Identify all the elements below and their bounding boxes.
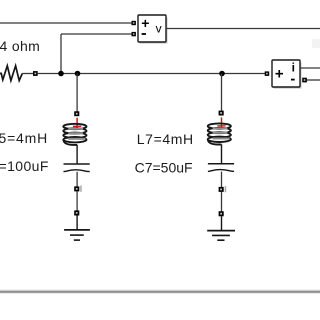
inductor L7 inner shading bbox=[213, 128, 230, 138]
svg-text:i: i bbox=[292, 61, 295, 75]
wire U1 output bbox=[166, 28, 320, 30]
wire C5 to output port bbox=[76, 172, 78, 187]
port branch 2 input bbox=[219, 111, 224, 116]
branch 2 clipped label tick bbox=[225, 186, 227, 192]
svg-text:4 ohm: 4 ohm bbox=[0, 38, 40, 54]
svg-text:=100uF: =100uF bbox=[0, 158, 49, 174]
port ground 2 bbox=[219, 211, 224, 216]
wire L7 to C7 bbox=[221, 144, 223, 164]
port branch 1 input bbox=[74, 111, 79, 116]
wire ground 2 lead bbox=[221, 216, 223, 230]
wire bus to branch 1 port bbox=[76, 74, 78, 112]
port U2 plus input bbox=[265, 71, 270, 76]
ground symbol 2 bbox=[207, 230, 235, 232]
ground symbol 1 bbox=[64, 229, 90, 231]
port branch 2 output bbox=[219, 187, 224, 192]
inductor L7 coil bbox=[208, 123, 231, 144]
current measurement block U2 shadow bbox=[274, 63, 301, 89]
port U1 plus input bbox=[132, 21, 136, 25]
svg-text:+: + bbox=[275, 66, 284, 83]
voltage measurement block U1 bbox=[138, 15, 166, 42]
branch 2 : L7 C7 series branch bbox=[207, 74, 235, 241]
current measurement block U2 bbox=[272, 60, 300, 87]
figure bottom border bbox=[0, 288, 320, 291]
node junction dot A (voltmeter minus tap) bbox=[58, 71, 64, 77]
wire source-to-voltmeter-plus bbox=[0, 22, 133, 24]
wire resistor to port bbox=[22, 73, 33, 75]
wire U2 minus terminal out bbox=[307, 79, 320, 81]
capacitor C7 top plate bbox=[208, 163, 234, 165]
polarity mark red plus L5 bbox=[76, 118, 78, 128]
voltage measurement block U1 shadow bbox=[140, 18, 167, 44]
wire voltmeter-minus vertical drop to bus bbox=[60, 34, 62, 74]
capacitor C5 top plate bbox=[64, 163, 90, 165]
node junction dot C (branch 2 tap) bbox=[219, 71, 225, 77]
svg-text:C7=50uF: C7=50uF bbox=[135, 160, 193, 176]
svg-text:+: + bbox=[141, 15, 149, 31]
inductor L5 inner shading bbox=[68, 129, 85, 139]
capacitor C5 curved plate bbox=[64, 170, 90, 172]
wire U2 signal output bbox=[300, 67, 320, 69]
port ground 1 bbox=[74, 210, 79, 215]
wire branch 2 output to ground port bbox=[221, 192, 223, 211]
polarity mark red plus L7 bbox=[221, 117, 223, 127]
U2 minus label bbox=[291, 79, 295, 81]
branch 1 : L5 C5 series branch bbox=[63, 74, 90, 241]
port resistor output bbox=[33, 71, 38, 76]
wire voltmeter-minus horizontal bbox=[61, 33, 133, 35]
clipped block fragment right edge bbox=[312, 39, 320, 48]
inductor L5 coil bbox=[63, 124, 86, 145]
port U2 minus output bbox=[302, 78, 307, 83]
node junction dot B (branch 1 tap) bbox=[75, 71, 81, 77]
port U1 minus input bbox=[132, 32, 136, 36]
branch 1 clipped label tick bbox=[80, 186, 82, 192]
port branch 1 output bbox=[74, 186, 79, 191]
wire L5 to C5 bbox=[76, 145, 78, 164]
wire branch 1 output to ground port bbox=[76, 191, 78, 210]
svg-text:L7=4mH: L7=4mH bbox=[137, 131, 194, 147]
svg-text:5=4mH: 5=4mH bbox=[0, 130, 48, 146]
svg-text:v: v bbox=[156, 22, 162, 36]
wire bus to branch 2 port bbox=[221, 74, 223, 112]
wire main bus bbox=[38, 73, 265, 75]
capacitor C7 curved plate bbox=[208, 170, 234, 172]
resistor R (4 ohm) zigzag bbox=[0, 66, 22, 81]
U1 minus label bbox=[142, 33, 146, 35]
wire C7 to output port bbox=[221, 172, 223, 187]
wire ground 1 lead bbox=[76, 216, 78, 230]
